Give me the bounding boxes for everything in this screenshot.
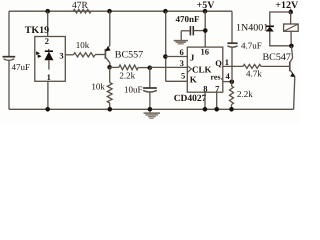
wire 4.7k to BC547 base [261, 65, 290, 67]
junction dot reset node [230, 80, 235, 85]
sensor TK19 box [35, 37, 66, 82]
svg-text:+5V: +5V [197, 0, 216, 11]
photodiode D1 in TK19 [45, 50, 53, 52]
junction dot 10k ground [108, 107, 113, 112]
wire collector node to 10k vertical [109, 67, 111, 82]
wire photodiode anode to pin1 [48, 60, 50, 69]
wire left supply branch lower [8, 61, 10, 109]
svg-text:+12V: +12V [275, 0, 299, 11]
wire IC pin 5 (K) [166, 80, 188, 82]
junction dot pin7 ground [214, 107, 219, 112]
capacitor C3 470nF [189, 26, 191, 35]
wire photodiode cathode stub [48, 49, 50, 51]
svg-text:8: 8 [203, 83, 207, 93]
svg-text:10k: 10k [91, 82, 105, 92]
svg-text:BC547: BC547 [263, 52, 291, 63]
wire IC pin 4 (reset) [223, 81, 232, 83]
wire TK19 pin2 drop [47, 11, 49, 36]
junction dot BC547 collector node [289, 44, 294, 49]
svg-text:Q: Q [215, 58, 222, 68]
svg-text:2.2k: 2.2k [237, 89, 253, 99]
wire Q output [223, 65, 243, 67]
ground symbol bottom [149, 111, 151, 113]
junction dot +12V node [288, 10, 293, 15]
wire collector node to 2.2k [110, 66, 119, 68]
wire IC pin8 to ground rail [204, 92, 206, 109]
wire relay bottom [290, 31, 292, 46]
wire reset node to 2.2k [231, 82, 233, 86]
clock input wedge [187, 66, 191, 73]
svg-text:5: 5 [181, 71, 185, 81]
wire 4.7uF to reset node [231, 47, 233, 82]
junction dot CLK node [148, 66, 153, 71]
junction dot 470nF tee [203, 28, 208, 33]
wire 10k to BC557 base [95, 54, 105, 56]
svg-text:J: J [190, 52, 195, 62]
resistor R3 10k vertical [107, 83, 112, 104]
wire 10k vertical to ground rail [109, 103, 111, 109]
svg-text:47R: 47R [72, 1, 89, 11]
wire diode anode to collector node [270, 32, 291, 46]
svg-text:3: 3 [180, 58, 184, 68]
wire 2.2k to CLK node [138, 67, 150, 69]
junction dot collector node [107, 65, 112, 70]
wire 470nF right lead [194, 30, 205, 32]
svg-text:1: 1 [47, 72, 51, 82]
junction dot TK19 pin2 on rail [45, 9, 50, 14]
relay K1 coil [284, 24, 299, 31]
wire 2.2k vertical to ground rail [231, 105, 233, 110]
wire relay top [290, 12, 292, 24]
wire BC557 emitter from rail [109, 11, 111, 45]
wire CLK node to CLK pin [150, 66, 188, 68]
wire J-K tie vertical [165, 11, 167, 81]
wire +12V node to diode [270, 12, 291, 26]
junction dot +5V on rail [203, 9, 208, 14]
diode D2 1N4001 [266, 25, 274, 27]
svg-text:7: 7 [215, 83, 220, 93]
svg-text:6: 6 [180, 47, 184, 57]
junction dot pin8 ground [203, 107, 208, 112]
wire TK19 pin1 to ground rail [47, 81, 49, 109]
svg-text:47uF: 47uF [12, 62, 31, 72]
svg-text:TK19: TK19 [25, 25, 49, 36]
wire CLK node to 10uF [149, 68, 151, 88]
junction dot TK19 pin1 on ground rail [45, 107, 50, 112]
junction dot J pin tee [163, 54, 168, 59]
svg-text:CD4027: CD4027 [174, 94, 207, 104]
capacitor C2 10uF [143, 87, 157, 89]
light arrows into photodiode [36, 51, 40, 55]
svg-text:2: 2 [45, 36, 49, 46]
svg-text:1N4001: 1N4001 [236, 23, 268, 34]
svg-text:1: 1 [225, 57, 229, 67]
capacitor C1 47uF [3, 56, 16, 58]
wire +5V to IC pin16 [204, 11, 206, 47]
wire BC557 collector down [109, 63, 111, 68]
svg-text:4.7k: 4.7k [246, 69, 262, 79]
wire bottom ground rail [9, 108, 294, 110]
wire 470nF to ground [180, 31, 182, 40]
svg-text:3: 3 [59, 50, 63, 60]
svg-text:4.7uF: 4.7uF [241, 41, 262, 51]
wire TK19 pin3 out [65, 54, 73, 56]
junction dot BC557 emitter on rail [107, 9, 112, 14]
svg-text:res.: res. [211, 72, 223, 81]
wire 470nF left lead [181, 30, 189, 32]
svg-text:K: K [190, 75, 197, 85]
svg-text:16: 16 [201, 47, 210, 57]
resistor R4 2.2k horizontal [119, 65, 138, 70]
IC U1 CD4027 box [187, 47, 223, 92]
svg-text:470nF: 470nF [176, 14, 201, 24]
wire BC547 emitter to ground rail [294, 77, 295, 110]
ground symbol 470nF [174, 40, 188, 42]
svg-text:CLK: CLK [192, 65, 212, 75]
wire +12V stub [290, 9, 292, 12]
resistor R6 2.2k vertical [230, 86, 234, 105]
wire top +5V rail [9, 10, 232, 12]
transistor Q2 BC547 [289, 62, 291, 72]
resistor R5 4.7k [243, 64, 261, 68]
resistor R2 10k base [74, 53, 96, 57]
svg-text:BC557: BC557 [115, 50, 143, 61]
wire IC pin7 to ground rail [216, 92, 218, 109]
junction dot 2.2k ground [229, 107, 234, 112]
junction dot J-K tie on rail [163, 9, 168, 14]
junction dot 10uF ground [148, 107, 153, 112]
wire +5V rail to 4.7uF [231, 11, 233, 43]
transistor Q1 BC557 [104, 49, 106, 59]
svg-text:10k: 10k [76, 40, 90, 50]
wire IC pin 6 (J) [166, 56, 188, 58]
capacitor C4 4.7uF [227, 42, 237, 44]
svg-text:2.2k: 2.2k [119, 71, 135, 81]
resistor R1 47R [73, 9, 91, 13]
svg-text:4: 4 [226, 71, 231, 81]
wire left supply branch upper [8, 11, 10, 56]
wire 10uF to ground rail [149, 92, 151, 110]
svg-text:10uF: 10uF [124, 85, 143, 95]
